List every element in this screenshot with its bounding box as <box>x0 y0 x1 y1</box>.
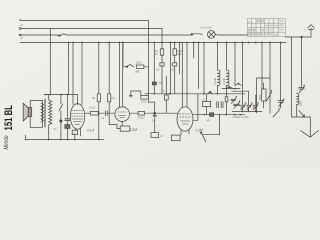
wire drop x119.4 <box>118 43 120 107</box>
svg-text:2×0,01 0,1 50: 2×0,01 0,1 50 <box>233 115 249 119</box>
wire drop x122.7 <box>122 43 124 107</box>
tube V1 electrodes <box>71 111 83 125</box>
grid resistor R7 <box>85 111 103 115</box>
svg-text:y=0,3 (W): y=0,3 (W) <box>201 27 212 30</box>
wire drop from L1 at x148.5 <box>148 21 150 67</box>
svg-text:1mΩ: 1mΩ <box>89 105 95 109</box>
wire drop x242.4 <box>241 43 243 105</box>
wire drop x198.4 <box>197 43 199 89</box>
grid stopper wire with cap C14 <box>129 91 141 97</box>
earth arrow (down) <box>301 130 319 137</box>
wire drop x248.5 <box>248 91 250 104</box>
switch S4 <box>226 86 233 88</box>
dial lamp LA1 <box>208 31 216 39</box>
tube V2 cathode box <box>120 122 130 132</box>
transformer T1 primary winding <box>49 95 52 140</box>
tube V1 CL4 envelope <box>70 104 84 130</box>
bus wire y114.7 <box>194 114 246 116</box>
trimmer C13 <box>278 98 284 108</box>
wire drop x68.5 <box>68 43 70 95</box>
coil L4 right <box>297 94 299 117</box>
wire drop x301.5 <box>301 37 303 87</box>
capacitor C5 stub <box>153 113 156 117</box>
junction dots bus B <box>204 114 242 116</box>
svg-text:150V: 150V <box>279 25 284 27</box>
junction dots transformer top <box>45 94 68 96</box>
resistor R15 on coil return <box>225 94 228 115</box>
speaker voice coil zigzag <box>41 103 44 122</box>
wire row y88.6 <box>222 88 240 90</box>
resistor R13 box <box>141 95 149 99</box>
wire bus L1 (antenna line) <box>20 19 149 21</box>
cathode resistor R4 box <box>72 130 77 139</box>
wire drop x262 <box>261 43 263 90</box>
heater wire row y93.8 <box>145 93 245 95</box>
junction dots trimmer bus <box>242 111 257 113</box>
resistor R3 vertical <box>173 43 176 63</box>
wire drop x204 <box>203 43 205 94</box>
wire drop x270 <box>269 43 271 79</box>
switch + resistor R1 1500 row <box>123 43 149 69</box>
wire drop x50 <box>49 29 51 95</box>
terminal a <box>19 28 24 30</box>
wire drop x108.6 <box>108 43 110 94</box>
wire drop from L2 at x162 <box>161 29 163 43</box>
tube V2 envelope (round) <box>115 107 130 122</box>
coil L2 <box>227 70 229 94</box>
svg-text:110V: 110V <box>274 34 279 36</box>
trimmer C8 <box>231 96 237 104</box>
wire L from junction up to x148 drop <box>148 67 154 113</box>
capacitor C3 block <box>65 95 70 140</box>
fuse S1 on line e <box>57 34 67 37</box>
svg-text:GW12: GW12 <box>138 117 146 120</box>
wire drop x217.5 (coil 1 top) <box>217 43 219 70</box>
label R2 <box>155 50 159 56</box>
wire bus L4 (chassis bus) <box>20 42 286 44</box>
resistor R14 box bottom <box>151 118 159 138</box>
svg-text:GW6: GW6 <box>141 101 147 103</box>
junction node on signal wire <box>154 112 156 114</box>
wire to earth arrow <box>292 117 311 136</box>
svg-text:1500: 1500 <box>136 60 142 64</box>
wire L3 continues to dial lamp <box>67 34 193 36</box>
speaker magnet <box>23 103 32 121</box>
transformer T1 core <box>44 99 47 127</box>
tube V1 pins <box>76 128 81 136</box>
junction dots row <box>154 88 236 95</box>
trimmer C10 <box>247 102 253 112</box>
volume pot R12 <box>262 89 266 101</box>
wire drop x170.6 <box>170 43 172 94</box>
resistor R6 vertical <box>108 94 121 129</box>
wire drop x280.6 <box>280 43 282 102</box>
switch S2 before dial lamp <box>191 34 202 36</box>
svg-text:220V: 220V <box>279 21 284 23</box>
svg-text:CL4: CL4 <box>87 128 94 132</box>
trimmer C11 <box>253 102 259 112</box>
terminal e <box>19 34 57 36</box>
resistor R5 vertical <box>97 94 100 140</box>
tube socket table <box>247 19 285 37</box>
wire drop x154.3 <box>152 43 156 94</box>
resistor R10 box <box>202 94 210 114</box>
wire drop x179.5 <box>179 43 181 75</box>
svg-text:125V: 125V <box>279 30 284 32</box>
capacitor C2 electrolytic <box>173 43 183 108</box>
svg-text:0,1: 0,1 <box>112 96 116 100</box>
antenna arrow (up) <box>308 25 314 30</box>
wire drop x226.5 (coil 2 top) <box>226 43 228 70</box>
resistor R2 vertical <box>160 43 163 56</box>
contact switch S3 <box>59 95 63 140</box>
pot arrow below V3 <box>200 132 206 143</box>
return wire to V3 cathode <box>203 115 220 135</box>
svg-text:UBC: UBC <box>135 70 141 74</box>
capacitor C6 pair <box>217 102 223 108</box>
resistor R9 vertical <box>164 76 168 113</box>
wire drop x255.8 <box>255 95 257 105</box>
svg-text:151 BL: 151 BL <box>3 105 15 131</box>
anode resistor R8 <box>130 111 177 115</box>
cathode box V3 <box>171 135 180 141</box>
pot arrow at wire <box>299 111 305 117</box>
trimmer C7 <box>233 100 240 108</box>
svg-text:5000: 5000 <box>259 94 262 100</box>
tube V3 envelope <box>177 107 193 131</box>
junction dots on chassis bus <box>68 42 282 44</box>
trimmer C16 <box>299 85 305 93</box>
junction on antenna wire <box>301 36 303 38</box>
trimmer C9 <box>241 102 247 112</box>
electrolytic capacitor C15 on bus <box>210 113 214 117</box>
coil L1 <box>218 70 221 94</box>
wire drop x81 <box>81 43 83 105</box>
wire drop x235 <box>234 43 236 86</box>
wire from tube table to antenna arrow <box>285 28 311 37</box>
svg-text:30: 30 <box>92 96 96 100</box>
wire top of transformer <box>44 95 78 105</box>
svg-text:Mende: Mende <box>4 135 10 149</box>
svg-text:C2M: C2M <box>130 128 137 132</box>
svg-text:2µF: 2µF <box>177 53 182 56</box>
svg-text:µ50: µ50 <box>171 69 176 72</box>
wire in can <box>263 83 265 108</box>
pot arrow R12 <box>273 108 280 117</box>
coil can box <box>257 78 270 113</box>
coupling capacitor C4 <box>103 111 114 116</box>
speaker LS frame <box>30 100 42 127</box>
svg-text:5000: 5000 <box>300 100 303 106</box>
switch S5 <box>207 91 212 93</box>
wire bus L2 <box>24 28 162 30</box>
wire drop x187 <box>186 43 188 108</box>
tube V3 pins <box>181 130 189 135</box>
wire row y91.2 <box>232 90 249 92</box>
tube table text <box>248 21 284 37</box>
label R3 <box>177 50 182 56</box>
bus under trimmers <box>232 110 262 112</box>
wire V3 anode right <box>193 94 198 121</box>
pot arrow in can <box>266 90 272 101</box>
wire drop x193.7 <box>193 43 195 59</box>
switch S6 <box>235 83 241 86</box>
capacitor C1 electrolytic <box>160 55 164 94</box>
wire drop x291.6 <box>291 37 293 117</box>
tube V3 electrodes <box>180 114 191 124</box>
svg-text:0,046: 0,046 <box>213 77 217 84</box>
junction dots bottom rail <box>48 139 100 141</box>
svg-text:0,046: 0,046 <box>222 77 226 84</box>
wire drop x73 <box>72 43 74 105</box>
wire drop x98 <box>98 43 100 94</box>
tube V2 electrodes <box>118 112 128 118</box>
bottom chassis rail <box>26 135 104 139</box>
wire from lamp to antenna symbol <box>215 33 247 36</box>
